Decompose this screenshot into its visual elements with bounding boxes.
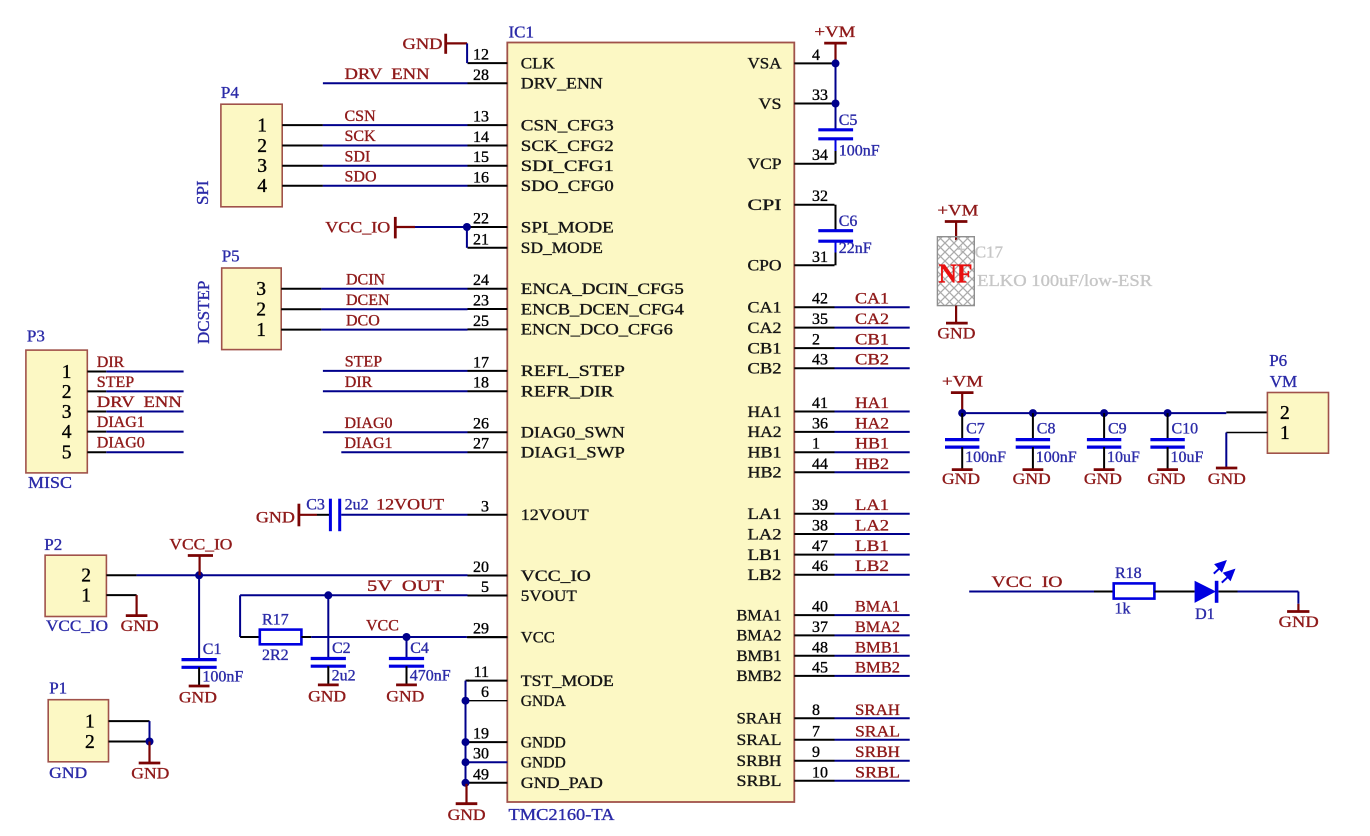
svg-text:CPI: CPI [748, 197, 782, 214]
svg-text:SRAH: SRAH [855, 702, 900, 719]
svg-text:GND: GND [1084, 471, 1122, 488]
svg-text:2u2: 2u2 [345, 496, 369, 513]
svg-text:DIR: DIR [97, 354, 125, 371]
svg-text:VCC: VCC [366, 617, 399, 634]
svg-text:10uF: 10uF [1107, 449, 1140, 466]
svg-text:CA1: CA1 [748, 300, 782, 317]
svg-text:49: 49 [473, 766, 489, 783]
svg-text:4: 4 [257, 176, 267, 197]
svg-text:BMA2: BMA2 [737, 628, 782, 645]
svg-text:STEP: STEP [97, 374, 134, 391]
svg-text:5: 5 [62, 443, 72, 464]
svg-text:2: 2 [81, 566, 91, 587]
svg-text:HA1: HA1 [855, 395, 889, 412]
svg-text:5VOUT: 5VOUT [521, 588, 577, 605]
svg-text:3: 3 [481, 498, 489, 515]
svg-text:VM: VM [1270, 372, 1297, 391]
svg-text:100nF: 100nF [965, 449, 1006, 466]
svg-text:9: 9 [812, 744, 820, 761]
svg-text:GND_PAD: GND_PAD [521, 775, 603, 792]
svg-text:P2: P2 [44, 535, 62, 554]
svg-text:10uF: 10uF [1171, 449, 1204, 466]
svg-text:HA2: HA2 [855, 415, 889, 432]
svg-text:GND: GND [179, 689, 217, 706]
svg-text:GND: GND [448, 807, 486, 824]
svg-text:VCC: VCC [521, 629, 555, 646]
svg-text:LA1: LA1 [748, 506, 782, 523]
svg-text:1: 1 [81, 586, 91, 607]
svg-text:GND: GND [49, 765, 87, 782]
svg-text:+VM: +VM [814, 24, 855, 41]
svg-text:10: 10 [812, 764, 828, 781]
svg-text:29: 29 [473, 621, 489, 638]
svg-text:1: 1 [1280, 423, 1290, 444]
svg-text:D1: D1 [1195, 606, 1215, 623]
svg-text:C5: C5 [839, 112, 858, 129]
svg-text:DRV ENN: DRV ENN [345, 66, 431, 83]
svg-text:25: 25 [473, 313, 489, 330]
svg-text:LB1: LB1 [748, 547, 782, 564]
svg-text:LA2: LA2 [855, 518, 889, 535]
svg-text:C10: C10 [1172, 420, 1199, 437]
svg-text:GND: GND [256, 509, 295, 526]
svg-text:CA2: CA2 [748, 320, 782, 337]
svg-text:VSA: VSA [748, 56, 782, 73]
svg-text:GND: GND [1279, 614, 1319, 631]
svg-text:2: 2 [257, 136, 267, 157]
svg-text:35: 35 [812, 311, 828, 328]
svg-text:DIAG0: DIAG0 [97, 435, 145, 452]
svg-text:DIAG1: DIAG1 [97, 414, 145, 431]
svg-text:LA2: LA2 [748, 526, 782, 543]
svg-text:12VOUT: 12VOUT [376, 496, 444, 513]
svg-text:SDI_CFG1: SDI_CFG1 [521, 158, 614, 175]
svg-text:ELKO 100uF/low-ESR: ELKO 100uF/low-ESR [977, 271, 1153, 290]
svg-text:DCSTEP: DCSTEP [194, 281, 213, 344]
svg-text:C7: C7 [966, 420, 985, 437]
svg-text:CLK: CLK [521, 55, 555, 72]
svg-text:BMB1: BMB1 [855, 639, 900, 656]
svg-text:45: 45 [812, 659, 828, 676]
svg-text:DIAG1: DIAG1 [345, 435, 393, 452]
svg-text:14: 14 [473, 129, 489, 146]
svg-text:4: 4 [62, 422, 72, 443]
svg-text:1: 1 [256, 320, 266, 341]
svg-text:DIAG1_SWP: DIAG1_SWP [521, 445, 625, 462]
svg-text:ENCB_DCEN_CFG4: ENCB_DCEN_CFG4 [521, 301, 684, 318]
svg-text:2: 2 [812, 332, 820, 349]
svg-text:2: 2 [256, 300, 266, 321]
svg-text:24: 24 [473, 272, 489, 289]
svg-text:39: 39 [812, 497, 828, 514]
svg-text:C2: C2 [332, 640, 351, 657]
svg-text:SRAL: SRAL [855, 723, 900, 740]
svg-text:P3: P3 [27, 327, 45, 346]
svg-text:BMA1: BMA1 [737, 607, 782, 624]
svg-text:LB1: LB1 [855, 538, 889, 555]
svg-text:SRBL: SRBL [855, 764, 900, 781]
svg-text:8: 8 [812, 702, 820, 719]
svg-text:DCIN: DCIN [346, 272, 386, 289]
svg-text:R17: R17 [262, 611, 289, 628]
svg-text:HB1: HB1 [855, 436, 889, 453]
svg-text:GND: GND [942, 471, 980, 488]
svg-text:32: 32 [812, 188, 828, 205]
svg-text:ENCA_DCIN_CFG5: ENCA_DCIN_CFG5 [521, 281, 684, 298]
svg-text:DCEN: DCEN [346, 292, 390, 309]
svg-text:1: 1 [812, 436, 820, 453]
svg-text:C17: C17 [975, 243, 1004, 262]
svg-text:47: 47 [812, 538, 828, 555]
svg-text:3: 3 [62, 402, 72, 423]
svg-text:+VM: +VM [942, 373, 983, 390]
svg-text:P5: P5 [222, 247, 240, 266]
svg-text:CB2: CB2 [855, 352, 889, 369]
svg-text:2: 2 [85, 732, 95, 753]
svg-text:C6: C6 [839, 213, 858, 230]
svg-text:1: 1 [257, 116, 267, 137]
svg-text:GNDA: GNDA [521, 693, 566, 710]
svg-text:100nF: 100nF [1036, 449, 1077, 466]
svg-text:SDI: SDI [345, 148, 371, 165]
svg-text:DIR: DIR [345, 374, 373, 391]
svg-text:1: 1 [62, 362, 72, 383]
svg-text:2R2: 2R2 [262, 647, 289, 664]
svg-text:P1: P1 [49, 679, 67, 698]
svg-text:CB1: CB1 [748, 340, 782, 357]
svg-text:6: 6 [481, 684, 489, 701]
svg-text:CA1: CA1 [855, 291, 889, 308]
svg-text:VCP: VCP [748, 156, 782, 173]
svg-text:2u2: 2u2 [332, 667, 356, 684]
svg-text:C4: C4 [410, 640, 429, 657]
svg-text:DIAG0: DIAG0 [345, 415, 393, 432]
svg-text:33: 33 [812, 87, 828, 104]
svg-text:42: 42 [812, 291, 828, 308]
svg-text:12VOUT: 12VOUT [521, 507, 589, 524]
svg-text:22: 22 [473, 211, 489, 228]
svg-text:VCC_IO: VCC_IO [169, 536, 232, 553]
svg-text:HB2: HB2 [748, 465, 782, 482]
svg-text:38: 38 [812, 518, 828, 535]
svg-text:HB2: HB2 [855, 456, 889, 473]
svg-text:2: 2 [62, 382, 72, 403]
svg-text:20: 20 [473, 559, 489, 576]
svg-text:37: 37 [812, 619, 828, 636]
svg-text:470nF: 470nF [410, 667, 451, 684]
svg-text:C8: C8 [1037, 420, 1056, 437]
svg-text:VCC_IO: VCC_IO [521, 568, 591, 585]
svg-text:SRBL: SRBL [737, 773, 782, 790]
svg-text:44: 44 [812, 456, 828, 473]
svg-text:GND: GND [1208, 471, 1246, 488]
svg-text:100nF: 100nF [839, 142, 880, 159]
svg-text:40: 40 [812, 599, 828, 616]
svg-text:SDO_CFG0: SDO_CFG0 [521, 178, 614, 195]
svg-text:REFL_STEP: REFL_STEP [521, 363, 625, 380]
svg-text:26: 26 [473, 416, 489, 433]
svg-text:30: 30 [473, 746, 489, 763]
svg-text:GND: GND [1147, 471, 1185, 488]
svg-text:4: 4 [812, 47, 820, 64]
svg-text:CSN_CFG3: CSN_CFG3 [521, 117, 614, 134]
svg-text:SCK: SCK [345, 128, 377, 145]
svg-text:23: 23 [473, 293, 489, 310]
svg-text:1k: 1k [1115, 601, 1131, 618]
svg-text:34: 34 [812, 147, 828, 164]
svg-text:BMA1: BMA1 [855, 599, 900, 616]
svg-text:+VM: +VM [937, 202, 978, 219]
svg-text:DCO: DCO [346, 312, 380, 329]
svg-text:3: 3 [256, 279, 266, 300]
svg-text:DIAG0_SWN: DIAG0_SWN [521, 425, 626, 442]
svg-text:DRV ENN: DRV ENN [97, 394, 183, 411]
svg-text:46: 46 [812, 558, 828, 575]
svg-text:BMA2: BMA2 [855, 619, 900, 636]
svg-text:NF: NF [939, 258, 973, 288]
svg-text:43: 43 [812, 352, 828, 369]
svg-text:GND: GND [121, 618, 159, 635]
svg-text:13: 13 [473, 109, 489, 126]
svg-text:SRBH: SRBH [737, 753, 782, 770]
svg-text:SRAL: SRAL [737, 732, 782, 749]
svg-text:48: 48 [812, 639, 828, 656]
svg-text:STEP: STEP [345, 354, 382, 371]
svg-text:VS: VS [759, 96, 782, 113]
svg-text:C9: C9 [1108, 420, 1127, 437]
svg-text:HB1: HB1 [748, 445, 782, 462]
svg-text:11: 11 [474, 664, 489, 681]
svg-text:GND: GND [131, 766, 169, 783]
svg-text:27: 27 [473, 436, 489, 453]
svg-text:CB1: CB1 [855, 332, 889, 349]
svg-text:LB2: LB2 [855, 558, 889, 575]
svg-text:ENCN_DCO_CFG6: ENCN_DCO_CFG6 [521, 322, 673, 339]
svg-text:VCC_IO: VCC_IO [325, 219, 390, 236]
svg-text:7: 7 [812, 723, 820, 740]
svg-text:SD_MODE: SD_MODE [521, 240, 603, 257]
svg-text:GNDD: GNDD [521, 755, 566, 772]
svg-text:LA1: LA1 [855, 497, 889, 514]
svg-text:CPO: CPO [748, 258, 782, 275]
svg-text:IC1: IC1 [509, 23, 535, 42]
svg-text:19: 19 [473, 726, 489, 743]
svg-text:BMB2: BMB2 [855, 659, 900, 676]
svg-text:3: 3 [257, 156, 267, 177]
svg-text:MISC: MISC [28, 473, 72, 492]
svg-text:15: 15 [473, 149, 489, 166]
svg-text:36: 36 [812, 415, 828, 432]
svg-text:HA2: HA2 [748, 424, 782, 441]
svg-text:CSN: CSN [345, 108, 377, 125]
svg-text:R18: R18 [1115, 565, 1142, 582]
svg-text:41: 41 [812, 395, 828, 412]
svg-text:5: 5 [481, 579, 489, 596]
svg-text:16: 16 [473, 169, 489, 186]
svg-text:HA1: HA1 [748, 404, 782, 421]
svg-text:GND: GND [386, 688, 424, 705]
svg-text:P6: P6 [1269, 351, 1287, 370]
svg-text:C1: C1 [203, 641, 222, 658]
svg-text:VCC_IO: VCC_IO [46, 618, 108, 635]
svg-text:17: 17 [473, 354, 489, 371]
svg-text:REFR_DIR: REFR_DIR [521, 384, 614, 401]
svg-text:LB2: LB2 [748, 567, 782, 584]
svg-text:CA2: CA2 [855, 311, 889, 328]
svg-text:2: 2 [1280, 403, 1290, 424]
svg-text:18: 18 [473, 375, 489, 392]
svg-text:BMB2: BMB2 [737, 668, 782, 685]
svg-text:BMB1: BMB1 [737, 648, 782, 665]
svg-text:VCC IO: VCC IO [992, 574, 1063, 591]
svg-text:DRV_ENN: DRV_ENN [521, 76, 603, 93]
svg-text:5V OUT: 5V OUT [367, 578, 444, 595]
svg-text:CB2: CB2 [748, 361, 782, 378]
svg-text:GNDD: GNDD [521, 734, 566, 751]
svg-text:SCK_CFG2: SCK_CFG2 [521, 138, 614, 155]
svg-text:SDO: SDO [345, 169, 377, 186]
svg-text:TMC2160-TA: TMC2160-TA [509, 805, 616, 824]
svg-text:+: + [957, 242, 965, 258]
svg-text:TST_MODE: TST_MODE [521, 673, 614, 690]
svg-text:SRBH: SRBH [855, 744, 900, 761]
svg-text:100nF: 100nF [202, 669, 243, 686]
svg-text:SPI_MODE: SPI_MODE [521, 219, 614, 236]
svg-text:SRAH: SRAH [737, 711, 782, 728]
svg-text:GND: GND [403, 36, 443, 53]
svg-text:C3: C3 [306, 496, 325, 513]
svg-text:12: 12 [473, 47, 489, 64]
svg-text:21: 21 [473, 231, 489, 248]
svg-text:SPI: SPI [193, 180, 212, 205]
svg-text:28: 28 [473, 67, 489, 84]
svg-text:GND: GND [308, 688, 346, 705]
svg-text:31: 31 [812, 249, 828, 266]
svg-text:P4: P4 [221, 83, 239, 102]
svg-text:1: 1 [85, 712, 95, 733]
svg-text:GND: GND [937, 326, 975, 343]
svg-text:22nF: 22nF [839, 240, 872, 257]
svg-text:GND: GND [1013, 471, 1051, 488]
